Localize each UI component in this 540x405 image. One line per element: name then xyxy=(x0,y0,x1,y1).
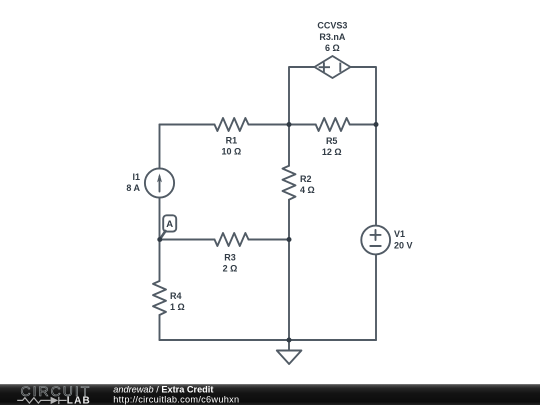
resistor R2 xyxy=(283,166,296,200)
resistor R5 xyxy=(316,118,350,131)
svg-text:CCVS3: CCVS3 xyxy=(317,21,347,31)
svg-text:V1: V1 xyxy=(394,229,405,239)
I1 arrowhead xyxy=(157,173,162,182)
wire R3 left lead xyxy=(160,239,215,241)
logo diode triangle xyxy=(51,397,59,404)
wire R4 bottom lead xyxy=(159,315,161,340)
V1 minus sign xyxy=(370,245,380,247)
wire left column top (I1 top lead) xyxy=(159,125,161,169)
voltage source V1 circle xyxy=(361,226,390,255)
wire V1 bottom lead xyxy=(375,254,377,340)
CCVS3 plus sign xyxy=(319,62,330,72)
CCVS3 minus bar xyxy=(339,63,341,72)
svg-text:R2: R2 xyxy=(300,174,312,184)
svg-text:12 Ω: 12 Ω xyxy=(322,147,342,157)
ground symbol xyxy=(277,351,302,365)
svg-text:10 Ω: 10 Ω xyxy=(222,147,242,157)
logo resistor zigzag and diode xyxy=(17,397,66,404)
wire V1 top lead xyxy=(375,125,377,225)
resistor R4 xyxy=(153,281,166,315)
svg-text:andrewab / Extra Credit: andrewab / Extra Credit xyxy=(113,385,213,395)
V1 plus sign xyxy=(370,230,380,240)
junction node ground xyxy=(287,338,292,343)
svg-text:2 Ω: 2 Ω xyxy=(223,263,238,273)
wire CCVS left riser xyxy=(289,67,315,125)
svg-text:R3.nA: R3.nA xyxy=(319,32,346,42)
junction node A xyxy=(157,237,162,242)
wire I1 bottom lead to node A xyxy=(159,198,161,240)
wire bottom row xyxy=(160,339,377,341)
wire left column mid (R4 top lead) xyxy=(159,240,161,282)
wire R2 top lead xyxy=(288,125,290,166)
wire CCVS right riser xyxy=(351,67,377,125)
svg-text:R1: R1 xyxy=(226,136,238,146)
wire top row left (R1 left lead) xyxy=(160,124,215,126)
ground stub xyxy=(288,340,290,351)
resistor R1 xyxy=(215,118,249,131)
resistor R3 xyxy=(215,233,249,246)
junction node R5-V1 xyxy=(374,122,379,127)
svg-text:8 A: 8 A xyxy=(126,183,140,193)
current source I1 circle xyxy=(145,168,174,197)
junction node R1-R5-R2 xyxy=(287,122,292,127)
junction node R3-R2 xyxy=(287,237,292,242)
svg-text:R3: R3 xyxy=(224,252,236,262)
svg-text:http://circuitlab.com/c6wuhxn: http://circuitlab.com/c6wuhxn xyxy=(113,395,239,405)
svg-text:1 Ω: 1 Ω xyxy=(170,302,185,312)
wire R5 left lead xyxy=(289,124,316,126)
dependent source CCVS3 diamond xyxy=(315,56,351,78)
node A pointer xyxy=(160,231,166,239)
svg-text:R4: R4 xyxy=(170,291,182,301)
svg-text:I1: I1 xyxy=(132,172,140,182)
I1 arrow xyxy=(159,177,161,192)
svg-text:4 Ω: 4 Ω xyxy=(300,185,315,195)
svg-text:LAB: LAB xyxy=(67,395,91,405)
svg-text:R5: R5 xyxy=(326,136,338,146)
wire R5 to right node xyxy=(350,124,376,126)
svg-text:A: A xyxy=(166,219,173,230)
wire R3 right lead xyxy=(249,239,290,241)
wire R2 bottom lead xyxy=(288,200,290,340)
node A label box xyxy=(163,215,176,231)
svg-text:20 V: 20 V xyxy=(394,241,413,251)
wire R1 to center node xyxy=(249,124,290,126)
svg-text:6 Ω: 6 Ω xyxy=(325,43,340,53)
